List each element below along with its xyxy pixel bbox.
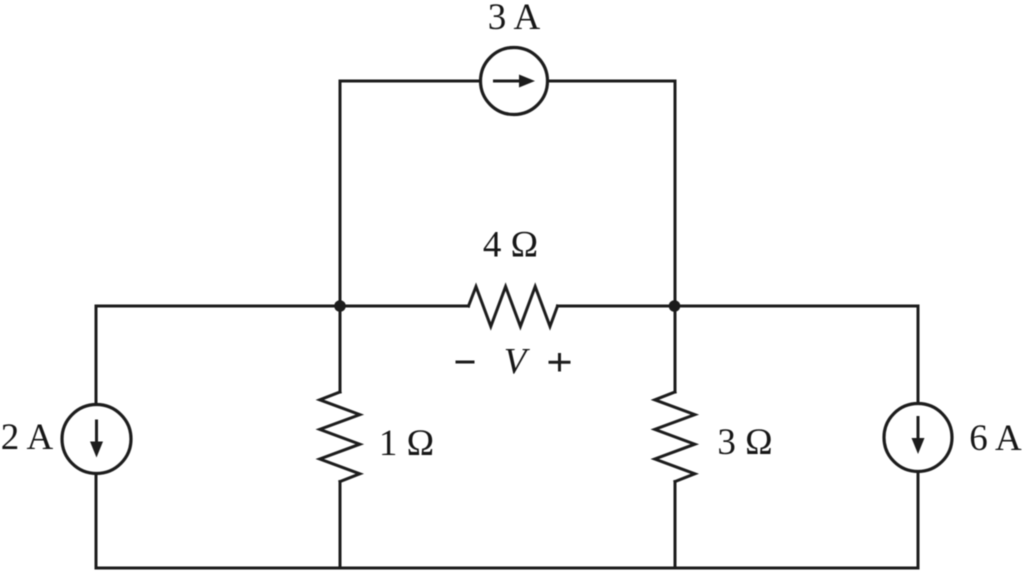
wire: top rail right segment <box>548 80 676 83</box>
svg-text:4 Ω: 4 Ω <box>483 225 538 266</box>
svg-text:3 A: 3 A <box>488 0 541 38</box>
resistor R1 1ohm (vertical zigzag) <box>320 392 360 482</box>
current source I3 6A (circle with down arrow) <box>884 404 952 472</box>
wire: left branch vertical upper <box>339 306 342 392</box>
current source I1 3A (circle with right arrow) <box>481 48 548 115</box>
wire: right branch vertical lower <box>674 482 677 568</box>
wire: right branch vertical upper <box>674 306 677 392</box>
wire: middle rail right segment <box>558 305 919 308</box>
svg-text:1 Ω: 1 Ω <box>379 423 434 464</box>
node A (junction dot left) <box>334 300 346 312</box>
wire: top rail left segment <box>340 80 481 83</box>
svg-text:3 Ω: 3 Ω <box>717 422 772 463</box>
wire: left branch vertical lower <box>339 482 342 568</box>
svg-text:2 A: 2 A <box>1 417 54 458</box>
label minus sign of V <box>456 361 475 364</box>
resistor R3 3ohm (vertical zigzag) <box>655 392 695 482</box>
label plus sign of V <box>549 353 571 372</box>
wire: right outer vertical upper <box>917 306 920 404</box>
svg-text:6 A: 6 A <box>969 418 1022 459</box>
wire: bottom rail <box>96 567 918 570</box>
wire: top-left vertical from node A up to top rail <box>339 81 342 306</box>
node B (junction dot right) <box>669 300 681 312</box>
resistor R2 4ohm (horizontal zigzag) <box>469 287 558 327</box>
svg-text:V: V <box>504 342 531 383</box>
wire: left outer vertical upper <box>95 306 98 405</box>
wire: middle rail left segment <box>96 305 469 308</box>
current source I2 2A (circle with down arrow) <box>62 405 131 474</box>
wire: top-right vertical from node B up to top rail <box>674 81 677 306</box>
wire: right outer vertical lower <box>917 472 920 569</box>
wire: left outer vertical lower <box>95 474 98 569</box>
